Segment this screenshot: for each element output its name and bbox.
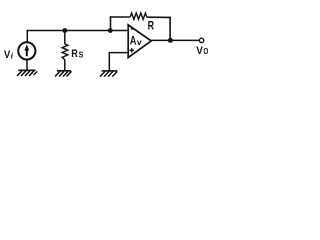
wire Rs upper lead xyxy=(64,31,66,45)
label Vi xyxy=(4,49,14,61)
svg-text:R: R xyxy=(148,18,155,32)
wire main horizontal (node A) xyxy=(27,30,128,32)
svg-text:v: v xyxy=(137,37,142,47)
ground under Rs xyxy=(55,71,72,77)
wire output xyxy=(151,39,199,41)
svg-text:O: O xyxy=(203,47,208,56)
svg-text:R: R xyxy=(71,48,78,60)
junction dot at feedback tap xyxy=(108,28,113,33)
junction dot at Rs tap xyxy=(62,28,67,33)
op-amp U1 triangle xyxy=(128,25,151,58)
op-amp minus sign xyxy=(131,28,135,30)
ground under source xyxy=(17,70,37,76)
svg-text:S: S xyxy=(79,51,84,60)
op-amp plus sign xyxy=(130,48,134,52)
wire plus input to ground xyxy=(109,53,128,71)
resistor Rs (vertical zigzag) xyxy=(62,44,68,60)
feedback wire top-left segment xyxy=(110,16,130,18)
wire source to ground stem xyxy=(26,59,28,70)
ground under plus input xyxy=(100,71,117,77)
svg-text:V: V xyxy=(196,45,203,57)
label Vo xyxy=(196,45,208,57)
resistor R (horizontal zigzag) xyxy=(130,13,147,19)
feedback wire up from node A xyxy=(110,16,112,31)
svg-text:A: A xyxy=(130,36,137,48)
output terminal (open circle) xyxy=(199,38,203,42)
junction dot at output/feedback xyxy=(168,38,173,43)
wire source-top to corner xyxy=(26,30,28,43)
label Av inside op-amp xyxy=(130,36,142,48)
feedback wire top-right segment xyxy=(147,16,171,18)
label Rs xyxy=(71,48,84,60)
source VS (circle with up arrow) xyxy=(18,42,35,59)
wire Rs lower lead xyxy=(64,60,66,71)
feedback wire down to output xyxy=(169,17,171,41)
